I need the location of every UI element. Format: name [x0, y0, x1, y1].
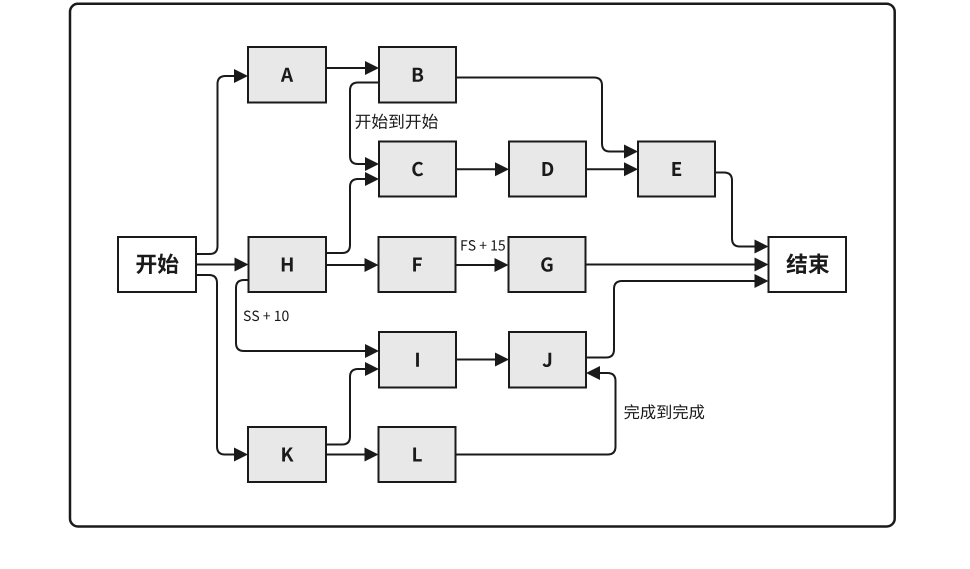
node L (L): [379, 427, 456, 482]
wire H->F: [326, 258, 379, 272]
wire H->I: [236, 280, 379, 358]
wire start->K: [196, 275, 248, 462]
wire A->B: [326, 61, 379, 75]
wire K->I: [326, 362, 379, 445]
node B (B): [379, 47, 456, 103]
outer frame: [70, 4, 895, 527]
wire G->end: [586, 258, 769, 272]
label FS + 15: [461, 240, 504, 251]
node start (开始): [118, 237, 196, 292]
label 开始到开始 (start-to-start): [355, 114, 437, 129]
wire B->C: [350, 83, 379, 172]
wire E->end: [715, 173, 769, 254]
node J (J): [509, 332, 586, 388]
wire L->J: [456, 366, 616, 455]
wire D->E: [586, 162, 638, 176]
node F (F): [379, 237, 456, 292]
wire K->L: [326, 448, 379, 462]
node A (A): [248, 47, 326, 103]
node C (C): [379, 142, 456, 197]
wire C->D: [456, 162, 509, 176]
node E (E): [638, 142, 715, 197]
node D (D): [509, 142, 586, 197]
wire F->G: [456, 258, 509, 272]
label 完成到完成 (finish-to-finish): [624, 404, 704, 419]
node end (结束): [769, 237, 847, 292]
node H (H): [249, 237, 327, 292]
label SS + 10: [244, 311, 289, 322]
node I (I): [379, 332, 456, 388]
wire H->C: [326, 172, 379, 253]
wire I->J: [456, 353, 509, 367]
wire J->end: [586, 274, 769, 358]
wire start->A: [196, 69, 248, 254]
node G (G): [509, 237, 586, 292]
wire start->H: [196, 258, 249, 272]
wire B->E: [456, 78, 638, 159]
node K (K): [248, 427, 326, 482]
